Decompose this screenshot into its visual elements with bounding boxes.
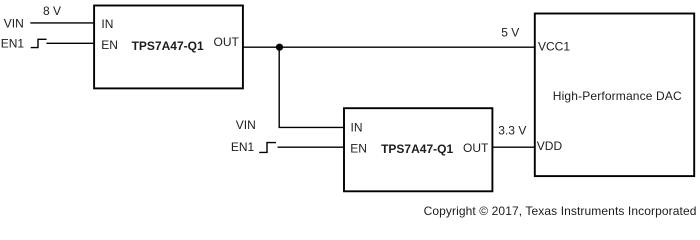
svg-text:VDD: VDD xyxy=(537,139,563,153)
svg-text:5 V: 5 V xyxy=(501,26,519,40)
svg-text:VIN: VIN xyxy=(4,16,24,30)
svg-text:3.3 V: 3.3 V xyxy=(498,124,526,138)
svg-text:EN: EN xyxy=(101,38,118,52)
svg-text:EN1: EN1 xyxy=(231,140,255,154)
svg-text:OUT: OUT xyxy=(463,141,489,155)
svg-text:IN: IN xyxy=(101,17,113,31)
svg-text:VCC1: VCC1 xyxy=(538,39,570,53)
svg-text:TPS7A47-Q1: TPS7A47-Q1 xyxy=(132,39,204,53)
svg-text:EN: EN xyxy=(350,142,367,156)
svg-text:IN: IN xyxy=(351,121,363,135)
svg-text:EN1: EN1 xyxy=(1,37,25,51)
svg-text:VIN: VIN xyxy=(236,118,256,132)
svg-text:High-Performance DAC: High-Performance DAC xyxy=(553,89,682,103)
svg-text:Copyright © 2017, Texas Instru: Copyright © 2017, Texas Instruments Inco… xyxy=(424,204,697,218)
svg-text:OUT: OUT xyxy=(214,35,240,49)
svg-text:TPS7A47-Q1: TPS7A47-Q1 xyxy=(381,142,453,156)
svg-text:8 V: 8 V xyxy=(43,4,61,18)
